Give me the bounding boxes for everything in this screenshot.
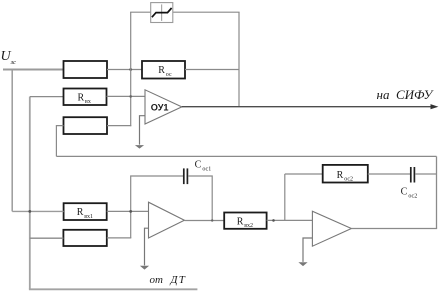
svg-text:вх: вх — [85, 99, 91, 105]
resistor R_oc2 — [323, 165, 368, 183]
resistor R_vx1 — [64, 203, 107, 220]
node dot inverting input — [129, 95, 132, 98]
op-amp 2 (lower left) — [149, 202, 185, 238]
wire third resistor right to node column — [107, 125, 131, 127]
wire U input line — [3, 69, 64, 71]
resistor (unlabeled, third row) — [64, 117, 108, 134]
wire vertical A from U line down to R_vx1 row — [11, 69, 13, 212]
wire vertical B feedback from DT line — [29, 97, 31, 290]
wire R_oc2 to C_oc2 — [368, 173, 410, 175]
svg-text:зс: зс — [10, 59, 16, 66]
wire bottom line from DT — [29, 288, 198, 290]
wire inverting node vertical — [130, 12, 132, 126]
svg-text:СИФУ: СИФУ — [396, 87, 435, 102]
wire opamp3 output to right column — [351, 228, 437, 230]
resistor R_vx2 — [224, 213, 266, 229]
wire C_oc1 left — [131, 176, 183, 238]
svg-text:R: R — [237, 216, 244, 227]
wire right feedback column — [436, 156, 438, 228]
wire C_oc1 right down to output row — [188, 176, 212, 221]
wire output column vertical — [238, 12, 240, 107]
wire top feedback loop right — [173, 11, 240, 13]
svg-text:R: R — [337, 170, 344, 181]
junction dot C_oc1 feedback tap — [211, 219, 213, 221]
svg-text:ос1: ос1 — [202, 166, 211, 172]
wire R_vx input to OU1 — [30, 96, 64, 98]
wire opamp2 output to R_vx2 — [184, 220, 224, 222]
wire OU1 output to SIFU — [182, 106, 433, 108]
wire opamp2 non-inverting stub — [145, 228, 149, 265]
svg-text:R: R — [78, 92, 85, 103]
wire R_vx to inverting input — [107, 95, 146, 97]
svg-text:R: R — [158, 65, 165, 76]
wire R_oc2 column down — [284, 174, 286, 220]
capacitor C_oc1 — [183, 168, 185, 184]
resistor R_oc (feedback) — [142, 61, 185, 79]
resistor R_vx — [64, 89, 107, 106]
svg-text:на: на — [377, 87, 390, 102]
resistor (unlabeled input resistor, top row) — [64, 61, 108, 78]
wire R_vx2 to opamp3 — [267, 219, 313, 221]
ground under opamp3 — [298, 262, 307, 266]
wire to R_oc2 — [285, 173, 323, 175]
wire C_oc2 to right column — [415, 173, 436, 175]
wire long current feedback line — [56, 155, 436, 157]
svg-text:ос2: ос2 — [344, 177, 353, 183]
svg-text:вх2: вх2 — [244, 223, 253, 229]
wire from input resistor to node — [107, 69, 142, 71]
svg-text:ДТ: ДТ — [170, 274, 187, 286]
svg-text:ОУ1: ОУ1 — [151, 102, 169, 112]
limiter (saturation nonlinearity block) — [151, 3, 173, 23]
svg-text:от: от — [150, 274, 164, 286]
node junction dot at inverting node column — [129, 68, 132, 71]
svg-text:C: C — [401, 186, 408, 197]
wire opamp3 non-inverting stub — [303, 238, 312, 262]
op-amp 3 (lower right) — [312, 211, 351, 246]
junction dot inverting node opamp2 — [129, 210, 132, 213]
arrowhead na SIFU — [431, 104, 439, 109]
wire R_oc to output column — [185, 69, 239, 71]
resistor (unlabeled, below R_vx1) — [63, 230, 106, 246]
ground under opamp2 — [140, 266, 149, 270]
ground under OU1 — [135, 145, 144, 149]
wire OU1 non-inverting input stub — [140, 116, 146, 145]
wire lower resistor to node column — [107, 237, 132, 239]
wire R_vx1 to opamp2 inverting input — [107, 210, 149, 212]
svg-text:C: C — [195, 159, 202, 170]
wire third resistor left to long feedback line — [56, 126, 63, 157]
junction dot crossing B — [28, 210, 31, 213]
wire vertical A to R_vx1 — [12, 210, 63, 212]
svg-text:R: R — [77, 207, 84, 218]
junction dot on wire — [272, 219, 275, 222]
wire top feedback loop left — [130, 11, 151, 13]
svg-text:ос: ос — [166, 72, 172, 78]
op-amp OU1 — [145, 90, 182, 124]
wire B to lower resistor — [30, 237, 64, 239]
capacitor C_oc2 — [410, 167, 412, 183]
svg-text:ос2: ос2 — [408, 193, 417, 199]
svg-text:вх1: вх1 — [84, 214, 93, 220]
